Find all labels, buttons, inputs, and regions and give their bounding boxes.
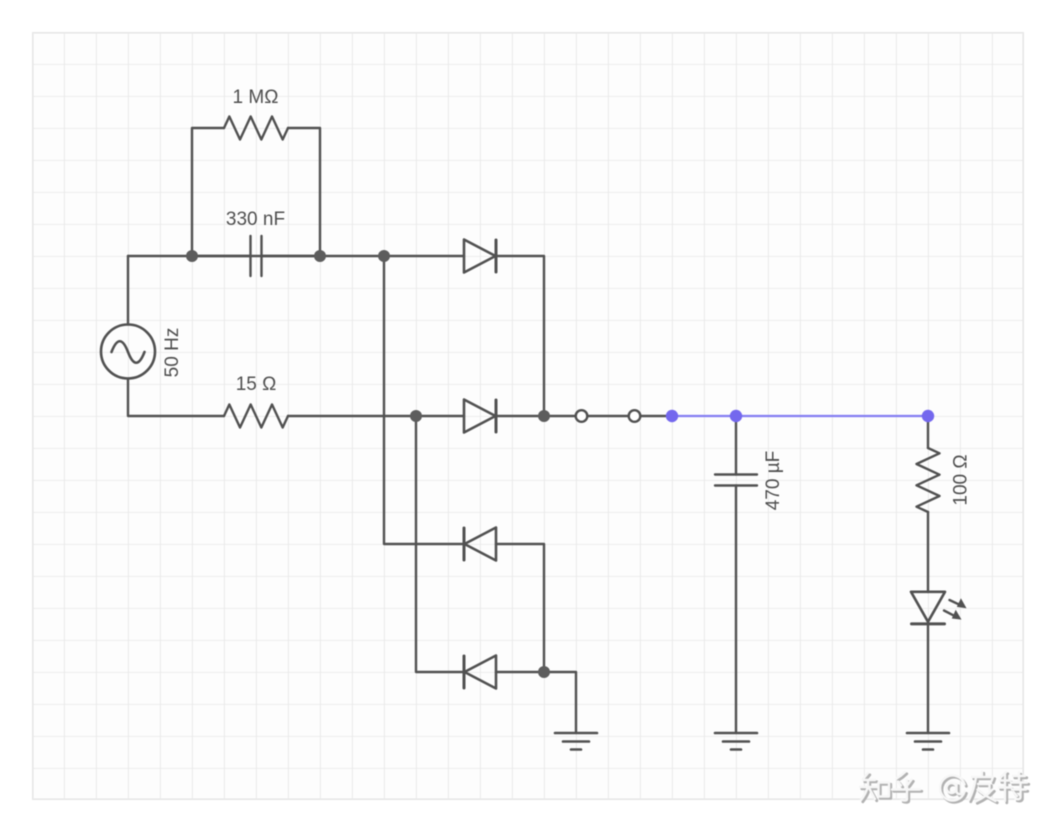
svg-text:50 Hz: 50 Hz (162, 328, 183, 378)
wire top rail y=256 from source corner to D1 anode (128, 255, 464, 257)
diode D2 cathode bar (495, 400, 498, 432)
label 100 Ω (rotated) (951, 454, 972, 505)
LED1 cathode bar (912, 622, 945, 625)
blue node dot (928,416) (922, 410, 934, 422)
wire C2 top lead from blue node (736,416) (735, 416, 737, 475)
svg-text:470 µF: 470 µF (763, 451, 784, 511)
label 50 Hz (rotated) (162, 328, 183, 378)
resistor R2 15 Ω zigzag (224, 405, 288, 428)
diode D1 triangle (464, 240, 496, 273)
ground GND3 (LED) (907, 733, 949, 750)
diode D2 triangle (464, 400, 496, 433)
node dot (416,416) (410, 410, 422, 422)
capacitor C2 470 µF bottom plate (715, 484, 757, 486)
blue node dot (736,416) (730, 410, 742, 422)
wire R3 to LED anode (927, 512, 929, 592)
wire source bottom lead and bottom rail to R2 (128, 379, 224, 417)
svg-text:1 MΩ: 1 MΩ (233, 87, 279, 108)
diode D4 triangle (465, 656, 497, 689)
node dot (544,416) (538, 410, 550, 422)
wire D1 cathode to output node: corner (544,256) down to (544,416) (496, 256, 544, 416)
switch SW1 post 1 open circle (576, 410, 588, 422)
wire 1MΩ loop left riser and top lead (192, 128, 224, 256)
voltage source V1 sine wave (112, 341, 145, 363)
switch SW1 post 2 open circle (629, 410, 641, 422)
wire D4 anode to node (544,672) and to ground riser (496, 672, 576, 733)
wire source top lead (127, 256, 129, 325)
ground GND1 (bridge) (555, 733, 597, 750)
capacitor C2 470 µF top plate (715, 473, 757, 475)
wire D3 anode corner to node (544,672) (496, 544, 544, 672)
node dot (192,256) (186, 250, 198, 262)
label 470 µF (rotated) (763, 451, 784, 511)
svg-text:330 nF: 330 nF (226, 209, 285, 230)
label 15 Ω (236, 374, 277, 395)
wire R2 to D2 anode across x=384 crossing (288, 415, 464, 417)
resistor R1 1 MΩ zigzag (224, 117, 288, 140)
wire node (384,256) down to D3 row and to D3 cathode (384, 256, 464, 544)
wire switch lead from node 544 to post 1 (544, 415, 576, 417)
svg-text:15 Ω: 15 Ω (236, 374, 277, 395)
label 330 nF (226, 209, 285, 230)
diode D1 cathode bar (495, 240, 498, 272)
node dot (384,256) (378, 250, 390, 262)
watermark 知乎 @皮特 (860, 772, 1029, 804)
wire cap C1 leads (192, 255, 320, 257)
node dot (544,672) (538, 666, 550, 678)
wire switch post 2 to blue node (641, 415, 673, 417)
diode D4 cathode bar (463, 656, 466, 688)
svg-text:100 Ω: 100 Ω (951, 454, 972, 505)
wire node (416,416) down to D4 row and to D4 cathode (416, 416, 464, 672)
diode D3 triangle (465, 528, 497, 561)
label 1 MΩ (233, 87, 279, 108)
ground GND2 (C2) (715, 733, 757, 750)
blue node dot (672,416) (666, 410, 678, 422)
wire 1MΩ loop right lead and riser (288, 128, 320, 256)
wire R3 top lead from blue node (928,416) (927, 416, 929, 448)
LED1 triangle (911, 592, 945, 622)
capacitor C1 330 nF right plate (260, 236, 262, 276)
wire C2 bottom lead to ground (735, 486, 737, 734)
LED1 emission arrow 2 (944, 610, 962, 620)
voltage source V1 50 Hz circle (101, 325, 155, 379)
capacitor C1 330 nF left plate (249, 236, 251, 276)
blue selected wire (672,416)-(928,416) (672, 415, 928, 417)
wire switch blade between posts (582, 415, 635, 417)
LED1 emission arrow 1 (950, 598, 967, 608)
resistor R3 100 Ω zigzag (917, 448, 940, 512)
node dot (320,256) (314, 250, 326, 262)
wire D2 cathode to node (544,416) (496, 415, 544, 417)
diode D3 cathode bar (463, 528, 466, 560)
wire LED cathode to ground (927, 624, 929, 733)
